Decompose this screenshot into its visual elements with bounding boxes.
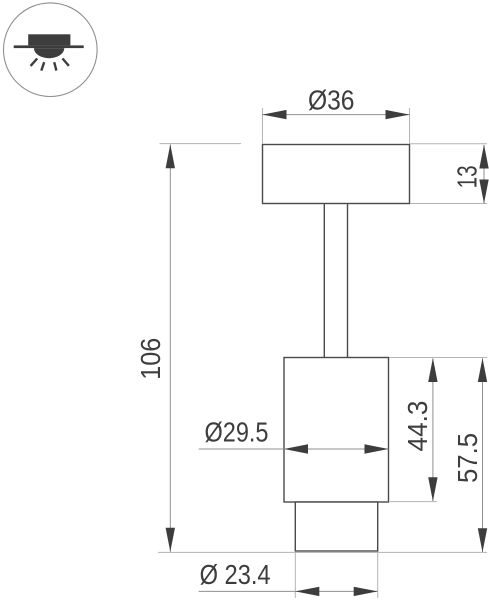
icon light ray mid-right <box>54 62 56 70</box>
arrow: diameter29.5 left <box>284 444 308 453</box>
svg-text:Ø 23.4: Ø 23.4 <box>200 559 271 590</box>
extension line: body bottom right horizontal <box>390 501 437 503</box>
arrow: diameter23.4 left <box>295 587 319 596</box>
svg-text:57.5: 57.5 <box>452 433 483 483</box>
dimension line: 106 <box>169 145 171 552</box>
icon light ray far-left <box>31 59 38 66</box>
extension line: diameter36 left vertical <box>262 108 264 144</box>
fixture body rect <box>284 358 389 503</box>
arrow: diameter23.4 right <box>354 587 378 596</box>
extension line: bottom long horizontal <box>158 551 487 553</box>
dimension line: 57.5 <box>482 359 484 553</box>
dimension line: diameter36 <box>263 114 410 116</box>
svg-text:Ø36: Ø36 <box>308 84 355 115</box>
arrow: 106 up <box>166 144 175 168</box>
arrow: 13 down <box>479 180 488 204</box>
arrow: diameter36 left <box>263 110 287 119</box>
arrow: 106 down <box>166 528 175 552</box>
arrow: diameter36 right <box>386 110 410 119</box>
svg-text:Ø29.5: Ø29.5 <box>205 417 269 448</box>
arrow: diameter29.5 right <box>365 444 389 453</box>
svg-text:44.3: 44.3 <box>402 401 433 452</box>
extension line: 13 top horizontal <box>410 143 487 145</box>
arrow: 44.3 up <box>428 358 437 382</box>
extension line: lower rect right vertical <box>377 552 379 598</box>
icon lamp dome <box>34 48 64 58</box>
extension line: body top right horizontal <box>389 357 487 359</box>
fixture stem left wall <box>323 204 325 358</box>
svg-text:13: 13 <box>452 165 483 188</box>
extension line: 106 top horizontal <box>160 143 242 145</box>
arrow: 44.3 down <box>428 477 437 501</box>
fixture stem right wall <box>347 204 349 358</box>
icon light ray far-right <box>63 59 69 66</box>
extension line: diameter36 right vertical <box>409 108 411 144</box>
dimension line: 13 <box>483 145 485 204</box>
dimension line: 44.3 <box>432 359 434 502</box>
arrow: 57.5 down <box>478 528 487 552</box>
icon circle <box>4 3 98 97</box>
arrow: 57.5 up <box>478 358 487 382</box>
fixture lower barrel rect <box>295 502 377 551</box>
arrow: 13 up <box>479 145 488 169</box>
extension line: lower rect left vertical <box>294 552 296 598</box>
fixture top canopy rect <box>263 145 410 204</box>
svg-text:106: 106 <box>135 338 166 380</box>
icon lamp housing rect <box>28 34 70 45</box>
extension line: 13 bottom horizontal <box>410 203 487 205</box>
dimension line: diameter23.4 <box>199 590 378 592</box>
dimension line: diameter29.5 <box>199 448 389 450</box>
icon ceiling line <box>14 45 84 48</box>
icon light ray mid-left <box>41 62 44 70</box>
